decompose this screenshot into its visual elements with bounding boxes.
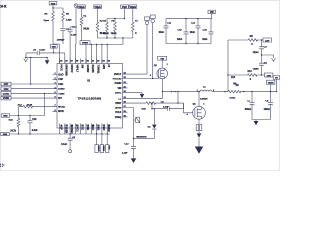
- svg-text:MON: MON: [58, 111, 64, 113]
- faint corner watermark top-left: [0, 4, 7, 10]
- wire input cap ground rail: [166, 43, 211, 44]
- page border frame: [0, 0, 279, 170]
- svg-text:»«: »«: [0, 4, 7, 10]
- svg-text:Q3: Q3: [154, 65, 158, 67]
- U1 left pin names: [58, 73, 65, 113]
- svg-text:VDD: VDD: [86, 125, 88, 130]
- svg-text:L1: L1: [203, 86, 206, 88]
- resistor R13: [228, 71, 265, 81]
- net label GND (row): [1, 114, 44, 118]
- svg-text:NA: NA: [233, 83, 237, 86]
- svg-text:R3: R3: [45, 14, 49, 16]
- svg-text:84.9k: 84.9k: [83, 28, 89, 31]
- svg-text:VREG: VREG: [102, 145, 104, 151]
- testpoint TP3: [128, 15, 159, 79]
- resistor R14 (not placed): [231, 76, 237, 86]
- svg-text:C1: C1: [72, 26, 76, 28]
- svg-text:V5FLT: V5FLT: [97, 145, 99, 152]
- svg-text:7: 7: [54, 105, 56, 107]
- wire VBST tie: [128, 108, 140, 139]
- svg-text:DRVOSNS: DRVOSNS: [65, 65, 67, 77]
- resistor R12: [18, 104, 53, 108]
- resistor R16: [142, 102, 156, 111]
- svg-text:1000pF: 1000pF: [57, 39, 65, 41]
- svg-text:R1: R1: [83, 16, 87, 18]
- U1 top pin stubs: [60, 59, 111, 64]
- net label CSP: [1, 82, 53, 86]
- svg-text:DRVH: DRVH: [115, 107, 122, 109]
- diode D1: [148, 109, 157, 139]
- resistor R5: [103, 5, 128, 38]
- net label VIN (Q3 drain): [158, 56, 167, 68]
- svg-text:CLKEN: CLKEN: [65, 125, 67, 133]
- svg-text:R12: R12: [18, 104, 23, 106]
- wire output cap ground rail: [252, 120, 271, 126]
- svg-text:0: 0: [135, 33, 137, 35]
- svg-text:1: 1: [167, 64, 168, 66]
- transistor Q2: [187, 104, 206, 120]
- net label VDD (vertical): [106, 134, 110, 153]
- svg-text:10uF: 10uF: [177, 39, 183, 41]
- svg-text:GAO: GAO: [58, 73, 63, 76]
- capacitor C3: [57, 29, 70, 44]
- svg-text:33: 33: [102, 61, 105, 63]
- svg-text:4.02k: 4.02k: [66, 18, 72, 21]
- wire VREG rail to chip pins: [86, 44, 123, 64]
- svg-text:R16: R16: [142, 109, 147, 111]
- wire switch rail / power rail: [163, 91, 278, 93]
- capacitor C1: [68, 26, 78, 63]
- svg-text:1: 1: [54, 73, 56, 75]
- svg-text:C9: C9: [161, 102, 165, 104]
- svg-text:0.1uF: 0.1uF: [163, 107, 170, 109]
- svg-text:Open: Open: [44, 20, 50, 22]
- svg-text:VREG: VREG: [82, 43, 88, 45]
- svg-text:0.1uF: 0.1uF: [39, 49, 46, 51]
- U1 right pin names: [113, 74, 122, 119]
- svg-text:D1: D1: [148, 126, 152, 128]
- ground C13: [131, 158, 137, 163]
- svg-text:18: 18: [123, 102, 126, 104]
- svg-text:15: 15: [123, 116, 126, 118]
- svg-text:R13: R13: [248, 71, 253, 73]
- svg-text:29: 29: [81, 61, 84, 63]
- D1 part label MBR0530: [136, 136, 147, 138]
- svg-text:C6: C6: [33, 49, 37, 51]
- net label VIN (input rail): [208, 10, 215, 18]
- svg-text:VDD: VDD: [51, 3, 56, 5]
- wire VDD to junction: [52, 5, 63, 9]
- wire R3/C3 net to chip pin: [53, 44, 60, 64]
- svg-text:2: 2: [54, 78, 56, 80]
- svg-text:5: 5: [54, 92, 56, 94]
- svg-text:R7: R7: [135, 21, 139, 23]
- svg-text:PGFLT: PGFLT: [114, 74, 122, 76]
- svg-text:C16: C16: [178, 30, 183, 32]
- capacitor C13: [122, 138, 155, 158]
- faint corner watermark bottom-left: [0, 163, 5, 169]
- wire pullup rail: [98, 37, 133, 44]
- svg-text:21: 21: [123, 87, 126, 89]
- svg-text:GSNS: GSNS: [3, 94, 10, 96]
- svg-text:CSP: CSP: [58, 79, 63, 81]
- svg-text:10uF: 10uF: [190, 32, 196, 34]
- svg-text:V5FILT: V5FILT: [75, 65, 77, 73]
- svg-text:6: 6: [54, 97, 56, 99]
- svg-text:CSN: CSN: [267, 75, 272, 77]
- svg-text:GSNS2: GSNS2: [86, 65, 88, 74]
- resistor R15: [9, 116, 20, 135]
- svg-text:DRVO2: DRVO2: [70, 65, 72, 74]
- op-amp U1 (controller IC body): [57, 64, 123, 129]
- svg-text:NCC: NCC: [91, 125, 93, 130]
- wire VSNS tap: [44, 93, 45, 116]
- svg-text:10.0k: 10.0k: [27, 104, 33, 106]
- svg-text:INT: INT: [58, 98, 62, 100]
- wire VO sense riser: [227, 40, 248, 92]
- svg-text:MBR0530: MBR0530: [136, 136, 147, 138]
- svg-text:GSNS: GSNS: [268, 83, 274, 85]
- inductor L1: [197, 86, 214, 100]
- svg-text:23: 23: [123, 77, 126, 79]
- svg-text:C15: C15: [203, 30, 208, 32]
- svg-text:VCLK: VCLK: [115, 112, 122, 114]
- net label VO: [273, 76, 279, 93]
- U1 top pin names: [59, 65, 109, 77]
- svg-text:4: 4: [187, 113, 189, 116]
- svg-text:0.001: 0.001: [230, 97, 236, 99]
- svg-text:27: 27: [71, 61, 74, 63]
- capacitor C8: [264, 91, 273, 120]
- net label VREG (vertical): [100, 134, 104, 153]
- svg-text:VSNS: VSNS: [58, 93, 65, 95]
- svg-text:19: 19: [123, 97, 126, 99]
- resistor R7: [129, 5, 139, 38]
- net label V5FILT (vertical): [95, 134, 99, 153]
- svg-text:CSP: CSP: [4, 84, 9, 86]
- svg-text:C13: C13: [124, 144, 129, 146]
- svg-text:10uF: 10uF: [202, 39, 208, 41]
- svg-text:CSP: CSP: [265, 40, 270, 42]
- power arrow to pin wire: [45, 58, 50, 65]
- wire Q2 drain to rail: [198, 91, 199, 107]
- svg-text:1: 1: [197, 90, 198, 92]
- net label CSN (right): [265, 73, 273, 77]
- net label GND (bottom rail): [1, 132, 9, 136]
- svg-text:20: 20: [123, 91, 126, 93]
- svg-text:4: 4: [150, 74, 152, 77]
- testpoint TP1: [74, 4, 78, 64]
- svg-text:25: 25: [60, 61, 63, 63]
- svg-text:∷·: ∷·: [0, 163, 5, 169]
- svg-text:PGOOD: PGOOD: [113, 78, 122, 80]
- svg-text:1: 1: [203, 104, 204, 106]
- svg-text:C4: C4: [264, 62, 268, 65]
- ground Q2 source: [195, 131, 203, 154]
- svg-text:R15: R15: [9, 119, 14, 121]
- svg-text:32: 32: [97, 61, 100, 63]
- svg-text:Open: Open: [111, 33, 117, 35]
- wire bottom rail: [9, 133, 110, 134]
- U1 left pin stubs: [53, 73, 58, 112]
- svg-text:26: 26: [65, 61, 68, 63]
- capacitor C11: [159, 19, 172, 44]
- svg-text:Open: Open: [253, 68, 259, 70]
- svg-text:2: 2: [213, 90, 214, 92]
- net label GSNS (right): [267, 80, 275, 91]
- net label CSP (right): [263, 38, 271, 42]
- svg-text:TPS51218DRHB: TPS51218DRHB: [77, 96, 101, 100]
- svg-text:CSH: CSH: [4, 89, 9, 91]
- svg-text:C12: C12: [191, 23, 196, 25]
- svg-text:33uF: 33uF: [159, 32, 165, 34]
- wire C6 node to U1 pin 1: [30, 57, 31, 85]
- svg-text:R4: R4: [66, 12, 70, 15]
- capacitor C4 (VCC bypass): [61, 134, 76, 153]
- capacitor C9: [151, 102, 183, 111]
- svg-text:EN0: EN0: [102, 65, 104, 70]
- transistor Q3: [150, 64, 168, 79]
- power flag VDD: [49, 2, 57, 6]
- svg-text:16: 16: [123, 111, 126, 113]
- svg-text:GND2: GND2: [107, 125, 109, 132]
- svg-text:R5: R5: [103, 21, 107, 23]
- svg-text:8: 8: [54, 110, 56, 112]
- capacitor C6 with ground: [24, 49, 65, 62]
- svg-text:30: 30: [87, 61, 90, 63]
- svg-text:MODE1: MODE1: [70, 125, 72, 134]
- svg-text:24.7k: 24.7k: [10, 129, 16, 132]
- capacitor C15: [202, 19, 213, 44]
- svg-text:SLP: SLP: [59, 125, 61, 130]
- Q2 source jumpers: [196, 119, 202, 131]
- svg-text:3.3nF: 3.3nF: [32, 130, 39, 132]
- svg-text:0: 0: [250, 79, 252, 81]
- svg-text:VDD: VDD: [107, 145, 109, 150]
- net label GSNS: [1, 92, 53, 96]
- svg-text:PVCC: PVCC: [59, 65, 61, 72]
- svg-text:C10: C10: [32, 119, 37, 121]
- svg-text:R6: R6: [111, 21, 115, 23]
- svg-text:MON2: MON2: [58, 106, 65, 108]
- svg-text:DRVL: DRVL: [115, 92, 122, 94]
- svg-text:C3: C3: [264, 46, 268, 48]
- svg-text:17: 17: [123, 106, 126, 108]
- wire R12 tap to GND row: [18, 107, 20, 116]
- svg-text:0.1uF: 0.1uF: [61, 144, 68, 146]
- svg-text:330uF: 330uF: [245, 109, 252, 111]
- resistor R1: [78, 5, 90, 41]
- svg-text:3: 3: [54, 83, 56, 85]
- capacitor C10: [28, 116, 39, 135]
- svg-text:CSH: CSH: [58, 84, 63, 86]
- capacitor C3 (sense): [253, 40, 268, 55]
- resistor R3: [44, 8, 55, 44]
- svg-text:VBST: VBST: [115, 103, 122, 105]
- svg-text:C4: C4: [72, 137, 76, 140]
- svg-text:SLEWA: SLEWA: [91, 65, 94, 74]
- resistor R8: [248, 36, 263, 46]
- svg-text:0: 0: [251, 44, 253, 46]
- svg-text:C11: C11: [167, 23, 172, 25]
- resistor R6: [111, 18, 117, 38]
- U1 bottom pin stubs: [60, 124, 111, 135]
- svg-text:GND: GND: [3, 134, 8, 136]
- svg-text:R8: R8: [250, 36, 254, 38]
- svg-text:R14: R14: [231, 76, 236, 79]
- svg-text:VID1: VID1: [96, 125, 98, 131]
- svg-text:VCC: VCC: [81, 125, 83, 130]
- svg-text:22: 22: [123, 82, 126, 84]
- resistor R9 (shunt): [224, 85, 244, 100]
- testpoint TP2: [128, 17, 150, 74]
- wire Q3 source to switch rail: [128, 79, 164, 99]
- capacitor C4 (sense): [253, 55, 268, 75]
- resistor R2: [94, 5, 106, 38]
- capacitor C16: [177, 19, 189, 44]
- svg-text:2.2uF: 2.2uF: [122, 153, 129, 155]
- net label VSNS: [1, 96, 53, 100]
- wire DRVL/bootstrap line: [128, 103, 193, 113]
- svg-text:3.3uF: 3.3uF: [71, 35, 78, 37]
- U1 right pin stubs: [123, 72, 128, 118]
- svg-text:DVCC: DVCC: [75, 125, 77, 132]
- svg-text:28: 28: [76, 61, 79, 63]
- capacitor C12: [190, 19, 201, 44]
- net label VDD (pin feed): [50, 45, 65, 64]
- svg-text:0.56uH: 0.56uH: [200, 98, 208, 100]
- ground input rail: [0, 0, 1, 1]
- switch node pin ties: [171, 91, 179, 104]
- svg-text:VID0: VID0: [102, 125, 104, 131]
- svg-text:VIN: VIN: [117, 88, 121, 90]
- svg-text:FREQ: FREQ: [115, 117, 122, 119]
- svg-text:Open: Open: [103, 33, 109, 35]
- net label VREG: [80, 41, 90, 45]
- svg-text:DSNS: DSNS: [58, 89, 65, 91]
- svg-text:PGND: PGND: [115, 83, 122, 85]
- svg-text:TONSEL: TONSEL: [96, 65, 98, 75]
- svg-text:Open: Open: [253, 52, 259, 54]
- svg-text:100uF: 100uF: [264, 109, 271, 111]
- U1 bottom pin names: [59, 125, 109, 134]
- net label CSH: [1, 87, 53, 91]
- wire PGND arrow: [128, 93, 145, 99]
- wire input rail: [166, 18, 212, 19]
- svg-text:VSNS: VSNS: [3, 98, 10, 100]
- svg-text:34: 34: [108, 60, 111, 63]
- capacitor C7: [245, 91, 255, 120]
- resistor R4: [62, 8, 73, 28]
- svg-text:GND: GND: [3, 116, 8, 118]
- svg-text:31: 31: [92, 61, 95, 63]
- svg-text:Q2: Q2: [193, 104, 197, 106]
- ground sense mid: [261, 54, 276, 61]
